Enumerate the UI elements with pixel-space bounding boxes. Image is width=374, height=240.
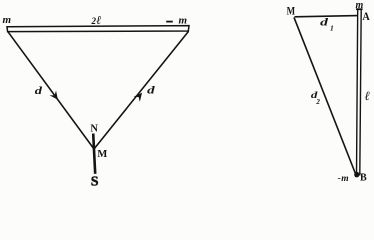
svg-text:2: 2: [315, 98, 320, 106]
magnet bar A to B right edge: [360, 9, 361, 175]
svg-text:ℓ: ℓ: [96, 13, 101, 27]
label -m right pole: [166, 21, 173, 23]
svg-text:-: -: [338, 174, 341, 184]
magnet bar top cap: [356, 8, 363, 10]
magnet bar A to B (right figure) left edge: [357, 9, 358, 175]
svg-text:1: 1: [330, 24, 334, 33]
left field line d from pole m to needle: [8, 32, 94, 149]
svg-text:B: B: [360, 173, 367, 184]
svg-text:m: m: [341, 174, 348, 184]
svg-text:N: N: [90, 123, 98, 134]
svg-text:M: M: [287, 5, 296, 17]
svg-text:m: m: [3, 14, 12, 26]
magnet bar m to -m (left figure): [7, 26, 189, 32]
line M to B distance d2: [294, 17, 356, 174]
arrowhead on left field line: [50, 90, 58, 99]
arrowhead on right field line: [134, 93, 143, 102]
compass needle line N to S: [93, 134, 95, 174]
junction blob at B: [354, 172, 359, 178]
svg-text:d: d: [320, 17, 329, 28]
right field line d from needle to pole -m: [94, 31, 189, 149]
line M to A distance d1: [295, 16, 359, 17]
svg-text:m: m: [179, 14, 188, 26]
svg-text:S: S: [91, 175, 99, 186]
svg-text:A: A: [362, 9, 370, 23]
svg-text:M: M: [97, 149, 107, 160]
svg-text:ℓ: ℓ: [365, 89, 370, 103]
